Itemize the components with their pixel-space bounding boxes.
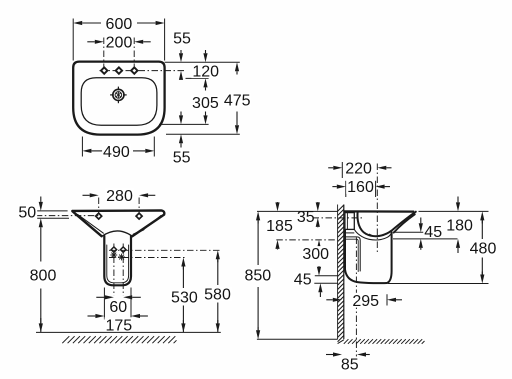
svg-text:45: 45 (294, 271, 312, 288)
svg-text:50: 50 (18, 205, 36, 222)
svg-text:175: 175 (105, 317, 132, 334)
svg-text:300: 300 (302, 246, 329, 263)
svg-text:490: 490 (103, 144, 130, 161)
svg-text:180: 180 (446, 217, 473, 234)
svg-text:220: 220 (345, 160, 372, 177)
svg-text:185: 185 (266, 218, 293, 235)
svg-text:800: 800 (30, 268, 57, 285)
svg-text:55: 55 (173, 149, 191, 166)
svg-text:55: 55 (173, 30, 191, 47)
svg-text:580: 580 (204, 286, 231, 303)
svg-text:850: 850 (244, 268, 271, 285)
svg-text:200: 200 (106, 34, 133, 51)
svg-text:475: 475 (224, 93, 251, 110)
svg-text:35: 35 (297, 209, 315, 226)
svg-text:530: 530 (171, 289, 198, 306)
svg-text:600: 600 (106, 16, 133, 33)
svg-text:305: 305 (192, 95, 219, 112)
svg-text:480: 480 (470, 241, 497, 258)
svg-text:85: 85 (341, 356, 359, 373)
svg-text:120: 120 (192, 63, 219, 80)
svg-text:60: 60 (109, 299, 127, 316)
svg-text:160: 160 (347, 179, 374, 196)
svg-text:295: 295 (352, 293, 379, 310)
svg-text:280: 280 (106, 188, 133, 205)
